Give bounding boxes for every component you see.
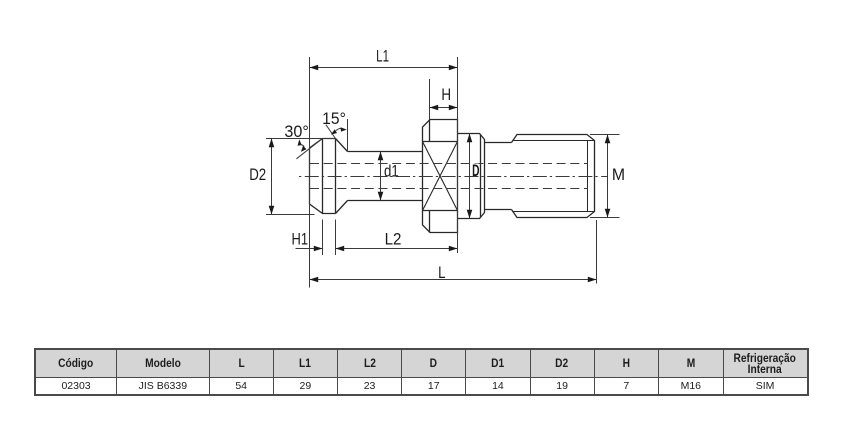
dimension D2 extension top — [266, 138, 336, 140]
extension line H1 right below head — [322, 220, 324, 256]
dimension L line — [310, 279, 597, 281]
extension line flange right — [457, 57, 459, 253]
svg-text:H: H — [441, 85, 451, 104]
dimension H line — [430, 107, 458, 109]
angle 15deg arc — [336, 128, 341, 130]
angle 15deg arrowhead right — [341, 127, 347, 131]
svg-text:L2: L2 — [385, 230, 402, 249]
dimension D line — [469, 134, 471, 219]
svg-text:L: L — [438, 264, 445, 283]
flange chamfer edge bottom — [429, 211, 431, 233]
dimension M extension bottom — [590, 217, 620, 219]
svg-text:D: D — [472, 160, 479, 179]
dimension d1 line — [380, 152, 382, 201]
flange cross diagonal 1 — [423, 142, 458, 211]
extension line flange chamfer for H — [429, 79, 431, 120]
shank bottom edge — [485, 209, 512, 211]
head outline — [310, 139, 348, 214]
collar outline — [458, 134, 485, 219]
head chamfer edge line — [322, 139, 324, 214]
extension line L right — [596, 220, 598, 284]
dimension M line — [607, 135, 609, 218]
taper 15deg extension line — [326, 125, 336, 139]
head taper edge line — [335, 139, 337, 214]
data table — [34, 348, 809, 396]
svg-text:D2: D2 — [249, 165, 266, 184]
angle 15deg reference vertical line — [347, 119, 349, 152]
flange outline — [423, 120, 458, 233]
thread chamfer boundary line — [587, 141, 589, 212]
svg-text:H1: H1 — [292, 230, 308, 249]
dimension M extension top — [590, 134, 620, 136]
dimension D2 extension bottom — [266, 214, 315, 216]
coolant hole dashed bottom line — [310, 188, 588, 190]
extension line head left — [309, 57, 311, 288]
dimension D2 line — [271, 139, 273, 215]
flange cross diagonal 2 — [423, 142, 458, 211]
shank top edge — [485, 142, 512, 144]
thread outline — [512, 135, 595, 218]
svg-text:15°: 15° — [322, 109, 346, 128]
extension line L2 left below head — [335, 220, 337, 256]
coolant hole dashed top line — [310, 163, 588, 165]
svg-text:d1: d1 — [384, 162, 399, 181]
centerline — [299, 176, 607, 178]
flange chamfer edge top — [429, 120, 431, 142]
chamfer 30deg extension line — [296, 139, 322, 159]
collar chamfer edge — [480, 135, 482, 218]
svg-text:30°: 30° — [284, 122, 308, 141]
dimension L1 line — [310, 67, 458, 69]
flange groove top line — [423, 141, 458, 143]
angle 30deg arrowhead up — [298, 139, 302, 145]
flange groove bottom line — [423, 210, 458, 212]
svg-text:M: M — [612, 166, 625, 185]
label D background — [471, 164, 478, 176]
dimension L2 line — [336, 248, 458, 250]
thread minor diameter bottom line — [513, 211, 595, 213]
svg-text:L1: L1 — [376, 47, 389, 66]
angle 30deg arrowhead down-left — [301, 146, 307, 152]
angle 15deg arrowhead left-down — [331, 129, 337, 134]
neck d1 bottom edge — [348, 200, 423, 202]
neck d1 top edge — [348, 151, 423, 153]
thread minor diameter top line — [513, 140, 595, 142]
dimension H1 line with outside arrow — [296, 248, 323, 250]
angle 30deg arc — [300, 145, 304, 147]
